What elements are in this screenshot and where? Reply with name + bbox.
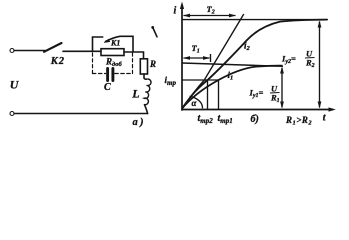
stray ink mark — [153, 28, 157, 37]
arrowheads T1 — [183, 56, 190, 60]
measure T2 — [184, 15, 236, 17]
tangent line (angle alpha) — [182, 14, 244, 109]
curve i1 — [182, 66, 283, 109]
arrowheads Iy2 — [318, 21, 322, 28]
svg-text:U: U — [10, 77, 20, 91]
asymptote Iy1 level — [182, 63, 283, 66]
wire top-left — [14, 50, 45, 52]
arrowheads Iy1 — [280, 67, 284, 74]
measure Iy1 vertical — [281, 68, 283, 108]
vertical t_tr1 — [218, 80, 220, 110]
svg-text:R: R — [149, 59, 156, 69]
tick T1 end — [210, 54, 212, 62]
bottom wire — [14, 113, 147, 115]
resistor Rdob — [101, 49, 124, 56]
angle alpha arc — [190, 96, 203, 108]
resistor R — [140, 59, 147, 74]
axis t arrowhead — [329, 107, 336, 111]
wire Rdob to R branch — [124, 51, 144, 53]
svg-text:С: С — [104, 82, 111, 93]
label Iy2 = U/R2 — [281, 49, 315, 70]
arrowheads T2 — [183, 14, 190, 18]
terminal top-left — [10, 49, 14, 53]
axis t (horizontal) — [182, 109, 333, 111]
switch K2 — [44, 43, 62, 52]
capacitor C — [106, 69, 109, 81]
wire top branch left — [93, 36, 103, 38]
switch K1 — [106, 36, 121, 41]
label Iy1 = U/R1 — [249, 84, 280, 105]
inductor L — [144, 79, 151, 105]
curve i2 — [182, 20, 327, 109]
node left junction / wire up — [92, 37, 94, 51]
svg-text:К1: К1 — [110, 39, 120, 48]
wire top branch right — [120, 36, 133, 51]
vertical t_tr2 — [207, 80, 209, 110]
measure Iy2 vertical — [319, 22, 321, 108]
wire dashed right of C branch — [132, 53, 134, 74]
svg-text:К2: К2 — [50, 56, 65, 67]
axis i arrowhead — [180, 2, 184, 10]
svg-text:R1>R2: R1>R2 — [285, 115, 312, 127]
svg-text:i: i — [174, 6, 177, 17]
wire K2 to node — [63, 50, 101, 52]
wire down to R — [143, 52, 145, 59]
wire R to L — [144, 74, 147, 79]
terminal bottom-left — [10, 112, 14, 116]
wire L to bottom — [145, 105, 148, 114]
svg-text:б): б) — [251, 114, 259, 125]
svg-text:L: L — [131, 86, 139, 100]
threshold line i_tr — [182, 79, 219, 81]
asymptote Iy2 level — [182, 19, 328, 21]
wire dashed bottom-right of C — [115, 73, 133, 75]
measure T1 — [184, 57, 210, 59]
axis i (vertical) — [181, 5, 183, 110]
wire dashed bottom-left of C — [93, 73, 106, 75]
wire dashed left of C branch — [92, 53, 94, 74]
svg-text:а): а) — [133, 117, 146, 128]
